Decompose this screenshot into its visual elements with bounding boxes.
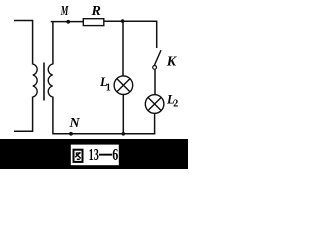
wire primary bottom lead — [14, 130, 33, 132]
svg-text:2: 2 — [173, 99, 178, 110]
svg-text:R: R — [91, 4, 101, 19]
svg-text:M: M — [60, 4, 69, 19]
node N — [69, 132, 73, 136]
wire L2 lower vertical — [154, 113, 156, 134]
wire primary bottom vertical — [32, 97, 34, 132]
caption dash — [99, 154, 112, 156]
svg-text:6: 6 — [112, 145, 118, 164]
lamp L2 — [145, 95, 164, 114]
wire primary top lead — [14, 20, 33, 22]
wire K to L2 vertical — [154, 70, 156, 95]
caption black bar — [0, 139, 188, 169]
wire secondary top vertical — [52, 21, 54, 65]
transformer core — [43, 63, 45, 101]
caption character tu (图) — [74, 150, 83, 162]
svg-text:1: 1 — [106, 82, 111, 93]
wire primary top vertical — [32, 20, 34, 65]
wire top from secondary to resistor — [51, 21, 84, 23]
svg-text:K: K — [166, 55, 178, 70]
switch K pivot circle — [153, 66, 157, 70]
wire L1 branch lower vertical — [122, 95, 124, 135]
wire bottom return — [53, 133, 155, 135]
resistor R — [83, 19, 104, 26]
caption white box — [71, 145, 119, 166]
transformer primary coil — [33, 64, 37, 97]
wire top from resistor to right corner — [104, 20, 157, 22]
wire secondary bottom vertical — [52, 97, 54, 135]
wire K branch top vertical — [156, 21, 158, 48]
wire L1 branch upper vertical — [122, 21, 124, 76]
svg-text:13: 13 — [89, 145, 99, 164]
transformer secondary coil — [48, 64, 52, 97]
svg-text:N: N — [69, 116, 81, 131]
switch K blade — [154, 50, 161, 65]
node junction top — [121, 19, 125, 23]
lamp L1 — [114, 76, 133, 95]
node junction bottom — [122, 132, 126, 136]
node M — [66, 20, 70, 24]
